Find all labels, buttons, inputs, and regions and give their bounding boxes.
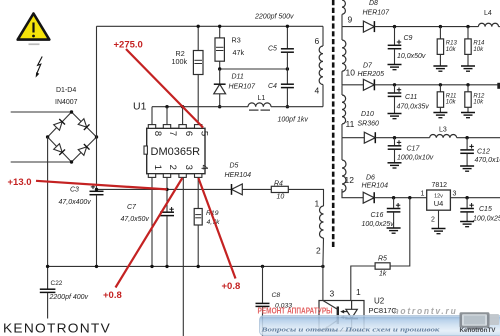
svg-text:+13.0: +13.0 bbox=[8, 177, 32, 188]
svg-text:10k: 10k bbox=[473, 47, 484, 53]
svg-text:R11: R11 bbox=[446, 93, 457, 99]
svg-text:L1: L1 bbox=[258, 95, 266, 102]
svg-text:U2: U2 bbox=[374, 297, 385, 306]
svg-text:notrontv.ru: notrontv.ru bbox=[394, 306, 458, 317]
svg-text:3: 3 bbox=[183, 165, 194, 170]
svg-text:6: 6 bbox=[183, 131, 194, 136]
svg-text:100pf 1kv: 100pf 1kv bbox=[278, 117, 309, 124]
svg-text:470,0x10v: 470,0x10v bbox=[475, 157, 500, 164]
svg-text:D10: D10 bbox=[361, 111, 374, 118]
svg-text:+0.8: +0.8 bbox=[103, 290, 122, 301]
svg-text:100,0x25v: 100,0x25v bbox=[473, 216, 500, 223]
svg-text:100k: 100k bbox=[172, 57, 188, 66]
svg-text:IN4007: IN4007 bbox=[55, 99, 78, 106]
svg-text:11: 11 bbox=[346, 119, 355, 129]
svg-text:1: 1 bbox=[152, 165, 163, 170]
svg-text:C7: C7 bbox=[127, 204, 137, 211]
svg-text:R13: R13 bbox=[446, 41, 458, 47]
svg-text:5: 5 bbox=[198, 131, 209, 136]
svg-text:C5: C5 bbox=[268, 46, 277, 53]
svg-text:2: 2 bbox=[167, 165, 178, 170]
svg-text:10k: 10k bbox=[446, 47, 457, 53]
svg-text:C11: C11 bbox=[405, 94, 417, 101]
svg-text:6: 6 bbox=[315, 36, 320, 46]
svg-text:10,0x50v: 10,0x50v bbox=[397, 53, 426, 60]
svg-text:3: 3 bbox=[453, 191, 457, 198]
svg-text:KenotronTV: KenotronTV bbox=[460, 327, 497, 334]
svg-text:2200pf 500v: 2200pf 500v bbox=[254, 14, 294, 21]
svg-text:KENOTRONTV: KENOTRONTV bbox=[3, 321, 111, 336]
svg-text:C3: C3 bbox=[70, 187, 79, 194]
svg-text:C15: C15 bbox=[479, 206, 492, 213]
svg-text:R5: R5 bbox=[378, 255, 387, 262]
svg-text:D11: D11 bbox=[232, 74, 244, 81]
svg-text:7812: 7812 bbox=[432, 182, 448, 189]
svg-text:SR360: SR360 bbox=[358, 121, 380, 128]
svg-text:Вопросы и ответы / Поиск схем: Вопросы и ответы / Поиск схем и прошивок bbox=[260, 327, 440, 334]
svg-text:D5: D5 bbox=[230, 163, 239, 170]
svg-text:R12: R12 bbox=[473, 93, 485, 99]
svg-text:4: 4 bbox=[198, 165, 209, 170]
svg-text:10: 10 bbox=[346, 68, 356, 78]
svg-text:D1-D4: D1-D4 bbox=[56, 87, 76, 94]
svg-text:U4: U4 bbox=[434, 199, 444, 208]
svg-text:12: 12 bbox=[345, 175, 355, 185]
svg-text:1000,0x10v: 1000,0x10v bbox=[397, 154, 434, 161]
svg-text:4: 4 bbox=[315, 86, 320, 96]
svg-text:7: 7 bbox=[167, 131, 178, 136]
svg-text:10k: 10k bbox=[446, 100, 457, 106]
svg-text:R3: R3 bbox=[232, 36, 241, 45]
svg-text:D7: D7 bbox=[363, 63, 373, 70]
svg-text:L4: L4 bbox=[484, 10, 492, 17]
svg-text:HER104: HER104 bbox=[362, 182, 389, 189]
svg-text:D8: D8 bbox=[369, 0, 378, 7]
svg-text:10: 10 bbox=[277, 193, 285, 200]
svg-text:C9: C9 bbox=[404, 35, 413, 42]
svg-text:C22: C22 bbox=[51, 280, 63, 287]
svg-text:C8: C8 bbox=[272, 292, 281, 299]
svg-text:HER107: HER107 bbox=[229, 84, 257, 91]
svg-text:47k: 47k bbox=[233, 48, 245, 57]
svg-text:HER104: HER104 bbox=[225, 172, 252, 179]
svg-text:C12: C12 bbox=[477, 149, 490, 156]
svg-text:R4: R4 bbox=[274, 180, 283, 187]
svg-text:1: 1 bbox=[315, 199, 320, 209]
svg-text:РЕМОНТ АППАРАТУРЫ: РЕМОНТ АППАРАТУРЫ bbox=[258, 306, 333, 316]
svg-text:+0.8: +0.8 bbox=[222, 281, 241, 292]
svg-text:1k: 1k bbox=[379, 270, 387, 277]
svg-text:47,0x50v: 47,0x50v bbox=[121, 216, 150, 223]
svg-text:1: 1 bbox=[421, 191, 425, 198]
svg-text:10k: 10k bbox=[473, 100, 484, 106]
svg-text:47,0x400v: 47,0x400v bbox=[59, 199, 92, 206]
svg-text:R14: R14 bbox=[473, 41, 485, 47]
svg-text:HER107: HER107 bbox=[363, 10, 391, 17]
svg-text:3: 3 bbox=[330, 288, 335, 298]
svg-text:470,0x35v: 470,0x35v bbox=[397, 104, 430, 111]
svg-text:100,0x25v: 100,0x25v bbox=[362, 221, 395, 228]
svg-text:2: 2 bbox=[316, 246, 321, 256]
svg-text:C16: C16 bbox=[371, 212, 384, 219]
svg-text:8: 8 bbox=[152, 131, 163, 136]
svg-text:HER205: HER205 bbox=[358, 71, 385, 78]
svg-text:D6: D6 bbox=[366, 175, 375, 182]
svg-text:2: 2 bbox=[431, 217, 435, 224]
svg-text:C4: C4 bbox=[268, 83, 277, 90]
svg-text:L3: L3 bbox=[439, 127, 447, 134]
svg-text:1: 1 bbox=[356, 287, 361, 297]
svg-text:C17: C17 bbox=[407, 146, 421, 153]
svg-text:U1: U1 bbox=[133, 101, 147, 113]
svg-text:9: 9 bbox=[348, 15, 353, 25]
svg-text:+275.0: +275.0 bbox=[114, 40, 143, 51]
svg-text:DM0365R: DM0365R bbox=[151, 146, 201, 158]
svg-text:2200pf 400v: 2200pf 400v bbox=[49, 294, 89, 301]
